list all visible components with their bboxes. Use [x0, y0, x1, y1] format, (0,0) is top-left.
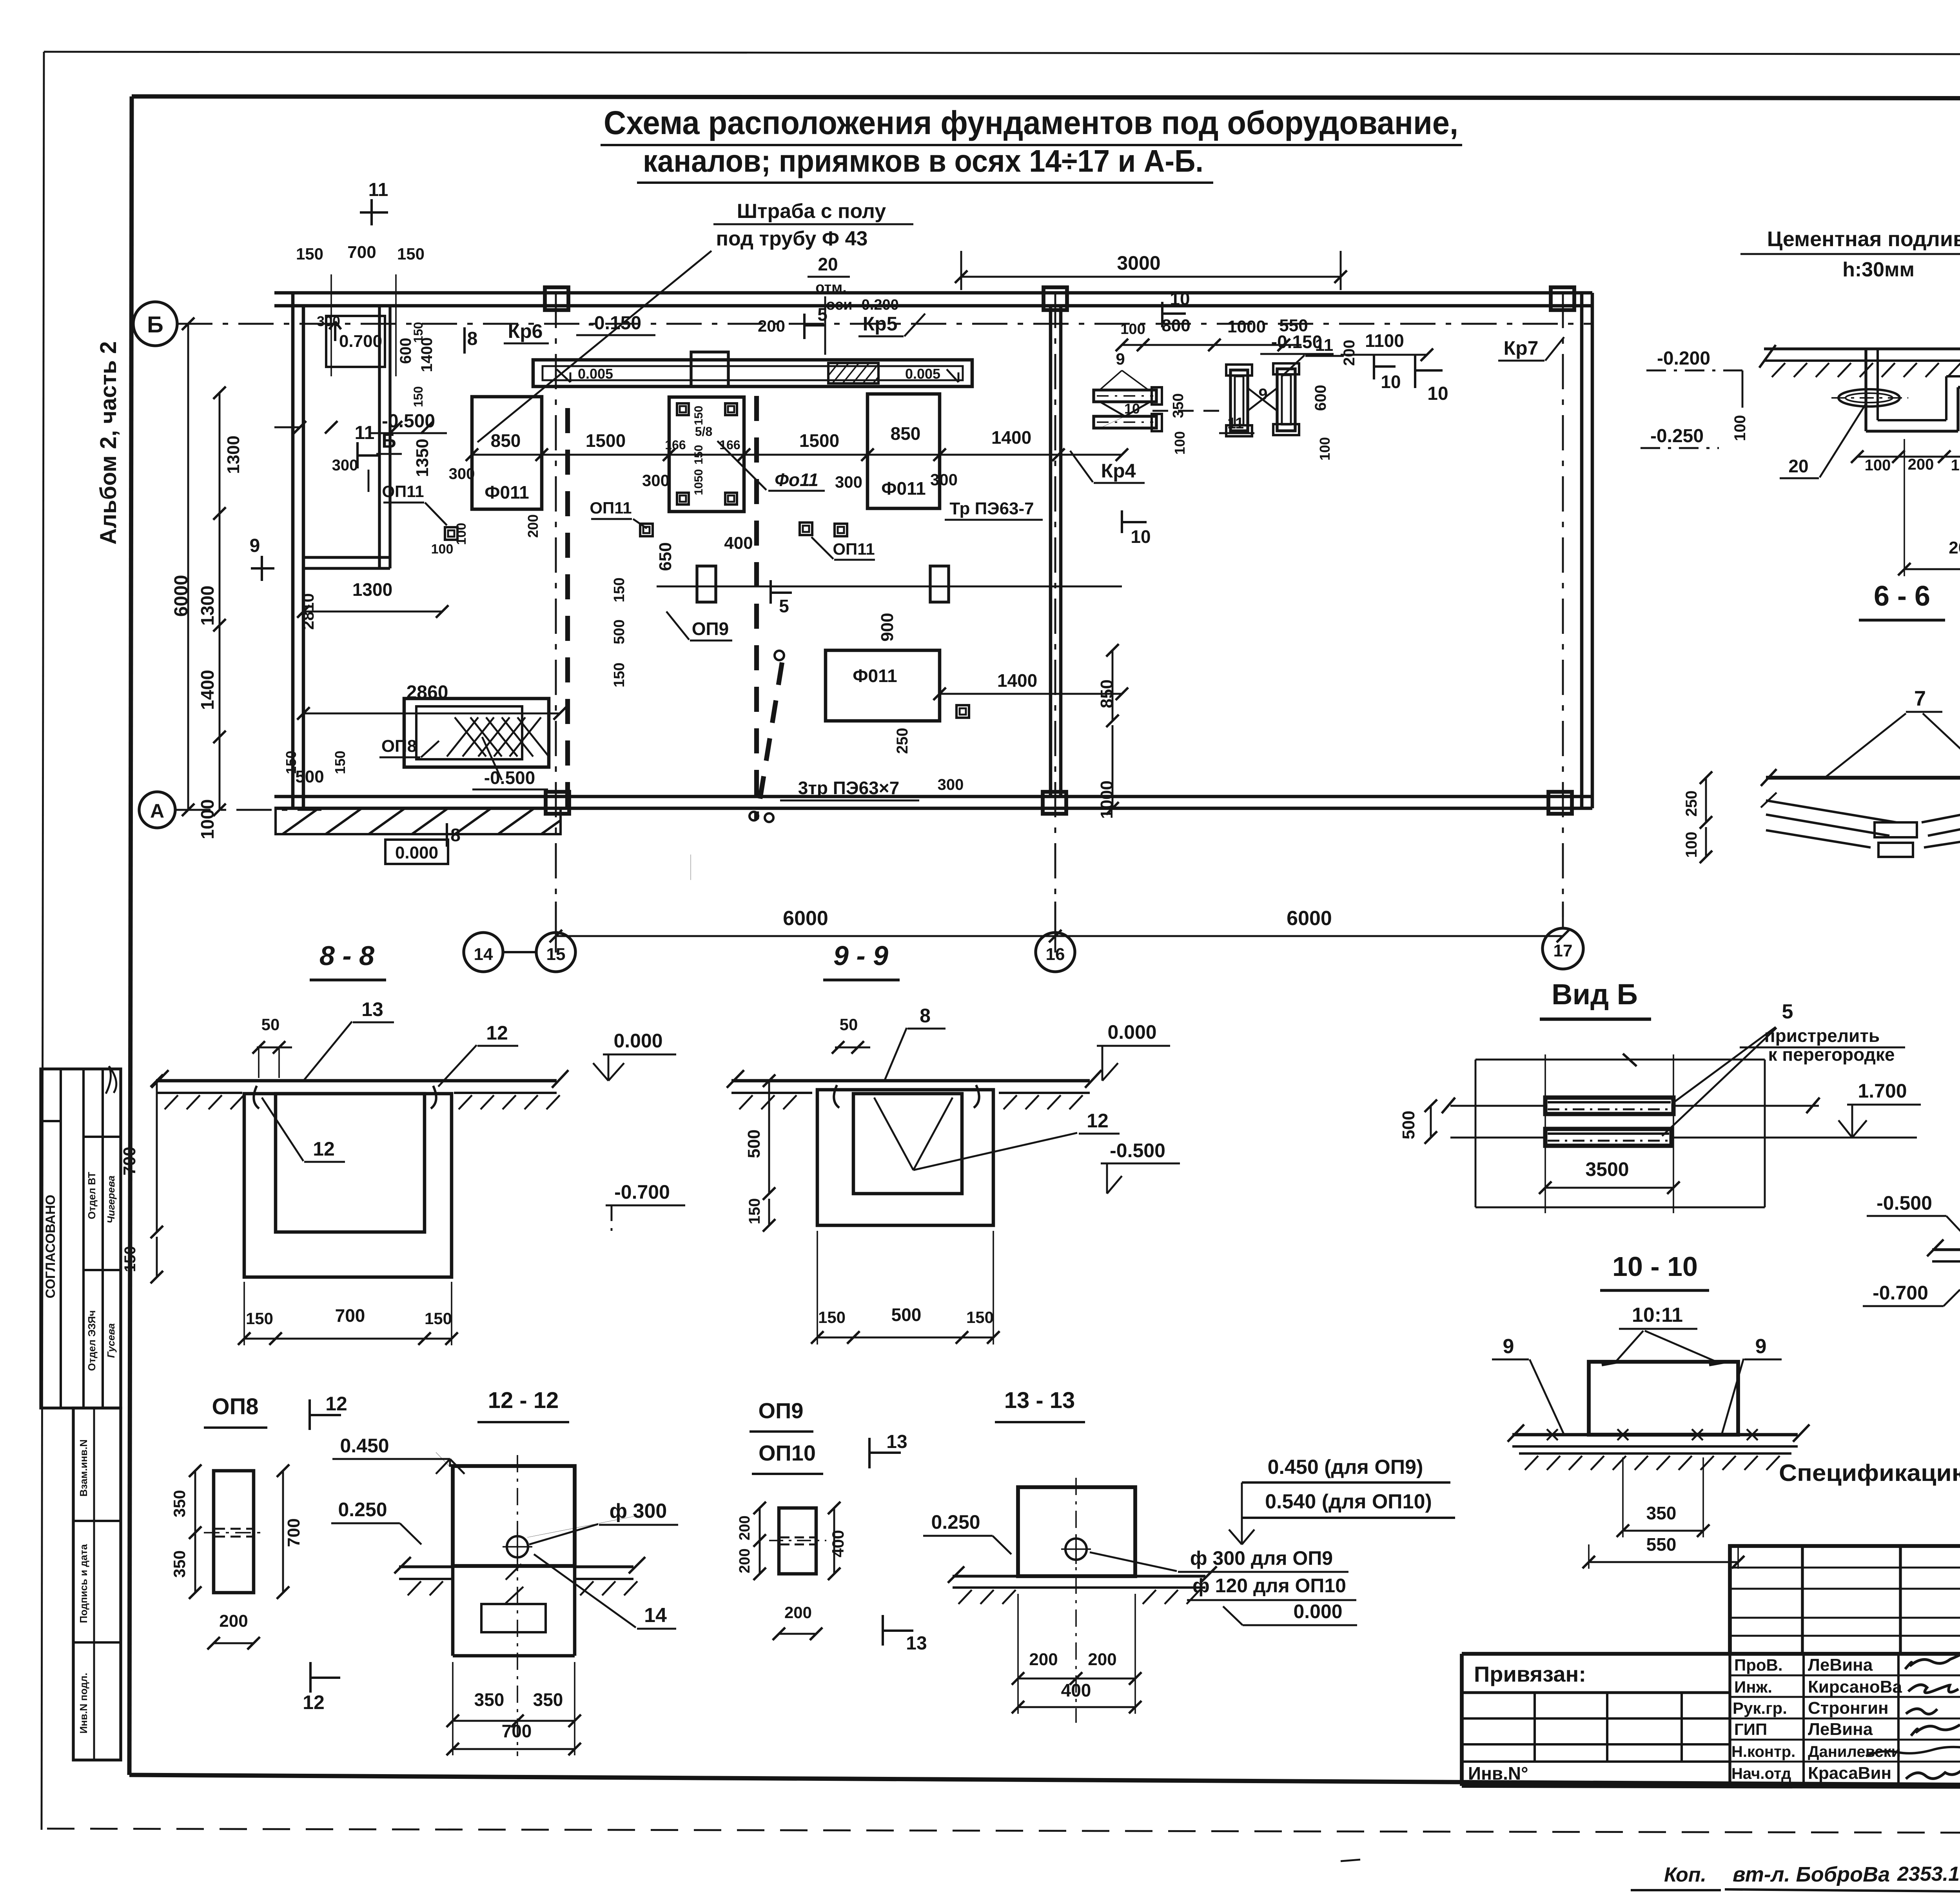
svg-text:100: 100 [1865, 457, 1891, 474]
svg-text:Рук.гр.: Рук.гр. [1733, 1699, 1787, 1717]
svg-text:200: 200 [1341, 340, 1358, 366]
left wall [291, 293, 295, 808]
vidB bar 1 [1545, 1098, 1673, 1114]
svg-text:10: 10 [1170, 289, 1190, 309]
svg-text:200: 200 [784, 1603, 812, 1622]
svg-text:200: 200 [758, 317, 785, 335]
svg-text:150: 150 [966, 1308, 994, 1326]
svg-text:6 - 6: 6 - 6 [1874, 581, 1930, 612]
8-8 top hooks [254, 1086, 259, 1109]
svg-text:1400: 1400 [997, 670, 1037, 691]
axis 15 line [555, 293, 557, 931]
svg-text:ОП9: ОП9 [759, 1398, 804, 1423]
svg-text:5/8: 5/8 [695, 425, 712, 439]
9-9 top hooks [834, 1085, 839, 1108]
signature table columns [1802, 1654, 1805, 1788]
svg-text:ЛеВина: ЛеВина [1808, 1655, 1873, 1675]
svg-text:900: 900 [878, 613, 897, 641]
svg-text:ф 300: ф 300 [610, 1500, 667, 1522]
svg-text:-0.250: -0.250 [1650, 426, 1704, 446]
floor channel top [533, 360, 972, 386]
svg-text:1.700: 1.700 [1858, 1080, 1907, 1102]
9-9 ground line [731, 1079, 1090, 1083]
svg-text:13: 13 [906, 1633, 927, 1654]
axis circle 17 [1543, 928, 1583, 969]
svg-text:Ф011: Ф011 [853, 666, 897, 686]
titleblock upper narrow table [1730, 1546, 1960, 1654]
svg-text:Цементная подливка: Цементная подливка [1767, 227, 1960, 251]
svg-text:300: 300 [449, 465, 475, 483]
svg-text:300: 300 [930, 470, 958, 489]
svg-text:1500: 1500 [799, 430, 839, 451]
svg-text:3500: 3500 [1585, 1158, 1629, 1180]
svg-text:9: 9 [1755, 1335, 1767, 1358]
svg-text:-0.700: -0.700 [614, 1181, 670, 1203]
svg-text:50: 50 [840, 1015, 858, 1034]
expansion joint dashed line 2 [754, 396, 759, 819]
svg-text:ф 300 для ОП9: ф 300 для ОП9 [1190, 1547, 1333, 1569]
axis А circle [139, 792, 175, 828]
svg-text:500: 500 [744, 1129, 764, 1158]
svg-text:200: 200 [737, 1515, 753, 1540]
OP8 mark 12 bottom [309, 1662, 312, 1693]
svg-text:200: 200 [1029, 1650, 1058, 1669]
mark 10 b [1373, 355, 1375, 379]
10-10 block [1589, 1362, 1738, 1435]
signature squiggles [1905, 1652, 1960, 1669]
svg-text:1500: 1500 [586, 430, 626, 451]
svg-text:Инж.: Инж. [1734, 1678, 1772, 1696]
svg-text:ОП11: ОП11 [590, 499, 632, 517]
svg-text:150: 150 [397, 245, 425, 263]
svg-text:Спецификацию и примечания см.: Спецификацию и примечания см. лист [1779, 1460, 1960, 1486]
svg-text:Нач.отд: Нач.отд [1731, 1765, 1791, 1782]
svg-text:9: 9 [1503, 1335, 1514, 1358]
10-10 floor [1512, 1433, 1798, 1437]
svg-text:КирсаноВа: КирсаноВа [1808, 1677, 1902, 1697]
13-13 hole [1065, 1539, 1087, 1560]
svg-text:150: 150 [246, 1309, 273, 1328]
svg-text:ОП11: ОП11 [833, 540, 875, 558]
axis А line [175, 809, 321, 811]
vidB bar 2 [1545, 1129, 1671, 1146]
axis 16 line [1054, 293, 1056, 931]
svg-text:Тр ПЭ63-7: Тр ПЭ63-7 [949, 499, 1034, 518]
svg-text:10: 10 [1131, 526, 1151, 547]
8-8 trench outer [244, 1094, 452, 1277]
svg-text:5: 5 [779, 596, 789, 616]
svg-text:650: 650 [656, 542, 675, 571]
svg-text:350: 350 [474, 1689, 505, 1710]
svg-text:150: 150 [611, 577, 628, 602]
svg-text:Кр5: Кр5 [863, 313, 898, 335]
12-12 inner pit [481, 1604, 546, 1632]
svg-text:0.700: 0.700 [339, 332, 382, 351]
svg-text:250: 250 [1683, 791, 1700, 817]
svg-text:20: 20 [818, 254, 838, 274]
8-8 trench inner [276, 1094, 425, 1232]
svg-text:550: 550 [1646, 1534, 1677, 1555]
svg-text:1350: 1350 [413, 439, 432, 477]
mark 11 top [370, 199, 373, 225]
svg-text:10: 10 [1427, 383, 1448, 404]
svg-text:каналов; приямков в осях 14÷17: каналов; приямков в осях 14÷17 и А-Б. [643, 143, 1203, 178]
svg-text:Б: Б [147, 312, 163, 338]
svg-text:150: 150 [411, 322, 425, 343]
svg-text:8: 8 [467, 328, 478, 349]
svg-text:ГИП: ГИП [1734, 1720, 1767, 1738]
svg-text:100: 100 [1120, 321, 1145, 338]
svg-text:Чигерева: Чигерева [105, 1176, 117, 1223]
svg-text:166: 166 [719, 438, 740, 452]
svg-text:1050: 1050 [692, 469, 705, 495]
left margin table СОГЛАСОВАНО [41, 1069, 121, 1408]
svg-text:6000: 6000 [1287, 907, 1332, 930]
svg-text:300: 300 [317, 313, 340, 329]
svg-text:0.250: 0.250 [338, 1499, 387, 1521]
svg-text:1300: 1300 [352, 579, 392, 600]
pit with crosshatch [404, 699, 549, 767]
svg-text:Н.контр.: Н.контр. [1731, 1743, 1795, 1760]
svg-text:-0.150: -0.150 [1271, 332, 1322, 352]
inner drawing frame [132, 96, 1960, 99]
axis16 partition wall [1049, 306, 1053, 797]
expansion joint dashed line 1 [565, 408, 570, 815]
svg-text:12: 12 [313, 1138, 335, 1160]
svg-text:10: 10 [1124, 401, 1140, 417]
svg-text:10: 10 [1381, 372, 1401, 392]
svg-text:150: 150 [283, 751, 299, 774]
svg-text:ОП8: ОП8 [381, 737, 417, 756]
svg-text:ОП8: ОП8 [212, 1394, 258, 1419]
svg-text:200: 200 [1088, 1650, 1116, 1669]
svg-text:ЛеВина: ЛеВина [1808, 1720, 1873, 1739]
svg-text:150: 150 [122, 1246, 139, 1272]
svg-text:300: 300 [835, 473, 862, 491]
svg-text:8: 8 [450, 825, 461, 845]
svg-text:100: 100 [431, 542, 454, 557]
svg-text:-0.500: -0.500 [382, 411, 435, 432]
mark 9 pit [690, 855, 691, 880]
svg-text:12: 12 [1087, 1110, 1109, 1132]
svg-text:12 - 12: 12 - 12 [488, 1388, 559, 1413]
stray marks bottom [1341, 1860, 1360, 1861]
svg-text:850: 850 [891, 423, 921, 444]
OP8 pier [214, 1471, 254, 1593]
svg-text:9: 9 [1258, 385, 1267, 403]
svg-text:400: 400 [829, 1530, 847, 1557]
svg-text:1400: 1400 [991, 427, 1031, 448]
svg-text:оси -0.200: оси -0.200 [826, 297, 899, 313]
svg-text:2353.1-86: 2353.1-86 [1897, 1863, 1960, 1885]
svg-text:0.005: 0.005 [578, 366, 613, 382]
svg-text:8: 8 [920, 1005, 931, 1027]
svg-text:200: 200 [1949, 538, 1960, 557]
dim 3000 top [961, 276, 1341, 278]
svg-text:2860: 2860 [407, 682, 448, 703]
svg-text:100: 100 [454, 523, 469, 545]
small pad OP9 left [697, 566, 716, 602]
svg-text:13 - 13: 13 - 13 [1004, 1388, 1075, 1413]
svg-text:10 - 10: 10 - 10 [1612, 1251, 1698, 1282]
svg-text:150: 150 [296, 245, 323, 263]
section mark 5 mid [769, 580, 772, 604]
svg-text:ф 120 для ОП10: ф 120 для ОП10 [1192, 1575, 1346, 1597]
svg-text:100: 100 [1172, 431, 1188, 455]
foundation F011 no4 [826, 650, 940, 721]
svg-text:20: 20 [1788, 456, 1808, 476]
svg-text:Кр4: Кр4 [1101, 460, 1136, 482]
svg-text:-0.500: -0.500 [1877, 1192, 1932, 1214]
svg-text:300: 300 [938, 776, 964, 793]
12-12 break in lower [506, 1564, 521, 1580]
13-13 floor lines [953, 1575, 1018, 1577]
svg-text:350: 350 [1646, 1503, 1677, 1523]
svg-text:Штраба с полу: Штраба с полу [737, 200, 886, 223]
svg-text:-0.200: -0.200 [1657, 348, 1710, 369]
svg-text:600: 600 [1312, 385, 1329, 411]
column axis16 bottom [1043, 792, 1066, 814]
svg-text:Кр7: Кр7 [1504, 337, 1539, 359]
svg-text:700: 700 [284, 1518, 303, 1547]
column axis17 bottom [1548, 792, 1572, 814]
svg-text:350: 350 [1170, 393, 1187, 418]
svg-text:250: 250 [894, 728, 911, 754]
svg-text:Б: Б [381, 430, 396, 452]
anchor plate with bolts [669, 397, 744, 512]
svg-text:0.540 (для ОП10): 0.540 (для ОП10) [1265, 1490, 1432, 1513]
svg-text:1300: 1300 [224, 435, 243, 474]
foundation F011 no1 [472, 397, 542, 509]
floor left 5-5 [1764, 347, 1960, 350]
svg-text:150: 150 [818, 1308, 846, 1326]
svg-text:0.000: 0.000 [1107, 1021, 1156, 1043]
svg-text:0.000: 0.000 [613, 1030, 662, 1052]
dim row 100 800 1000 550 top right [1122, 344, 1301, 346]
privyazan cell [1462, 1691, 1730, 1694]
pit crosshatch [447, 717, 478, 757]
12-12 block lower [451, 1566, 455, 1656]
svg-text:Вид Б: Вид Б [1552, 978, 1638, 1011]
svg-text:100: 100 [1731, 415, 1749, 441]
svg-text:СОГЛАСОВАНО: СОГЛАСОВАНО [43, 1195, 58, 1299]
6-6 floor line [1766, 776, 1960, 780]
svg-text:А: А [150, 800, 164, 822]
dashed pipe right [1152, 410, 1227, 412]
svg-text:12: 12 [486, 1022, 508, 1044]
svg-text:Схема расположения фундаментов: Схема расположения фундаментов под обору… [604, 104, 1458, 141]
titleblock main outline [1462, 1652, 1960, 1656]
svg-text:200: 200 [1908, 456, 1934, 473]
svg-text:10:11: 10:11 [1632, 1304, 1683, 1326]
svg-text:150: 150 [746, 1198, 763, 1225]
svg-text:13: 13 [886, 1432, 907, 1452]
OP8 mark 12 [309, 1399, 311, 1430]
svg-text:0.450: 0.450 [340, 1435, 389, 1457]
OP910 mark 13 bottom [882, 1615, 884, 1646]
svg-text:9 - 9: 9 - 9 [833, 940, 888, 971]
axis circle 15 [536, 933, 575, 972]
svg-text:850: 850 [491, 430, 521, 451]
svg-text:0.450 (для ОП9): 0.450 (для ОП9) [1268, 1456, 1423, 1479]
svg-text:Инв.N°: Инв.N° [1468, 1763, 1528, 1784]
svg-text:отм.: отм. [815, 279, 847, 296]
pipe in trench [1838, 389, 1900, 406]
interior partition vertical [378, 307, 381, 568]
foundation F011 no3 [867, 394, 940, 508]
12-12 floor lines [399, 1565, 453, 1568]
svg-text:150: 150 [692, 445, 705, 465]
svg-text:1000: 1000 [1227, 317, 1266, 336]
svg-text:ОП9: ОП9 [692, 619, 729, 639]
svg-text:Стронгин: Стронгин [1808, 1698, 1889, 1718]
boxed level 0.700 [326, 316, 385, 367]
plan center line [657, 586, 1122, 588]
svg-text:400: 400 [1061, 1680, 1091, 1700]
svg-text:850: 850 [1097, 679, 1116, 708]
svg-text:ОП10: ОП10 [759, 1441, 816, 1465]
mark 11 mid-left [356, 442, 359, 468]
svg-text:11: 11 [368, 180, 388, 200]
9-9 trench inner [853, 1094, 962, 1194]
svg-text:166: 166 [665, 438, 686, 452]
svg-text:350: 350 [170, 1490, 189, 1517]
svg-text:0.000: 0.000 [1293, 1600, 1342, 1622]
channel hatch block [828, 363, 878, 383]
svg-text:Подпись и дата: Подпись и дата [78, 1544, 89, 1623]
channel bracket pair horizontal [1094, 390, 1156, 402]
dim 1400 bottom [940, 693, 1122, 695]
13-13 dims 200 200 400 [1018, 1678, 1135, 1680]
dim row mid plan [472, 454, 1122, 456]
pit mark 8 [446, 823, 448, 847]
svg-text:ОП11: ОП11 [382, 482, 424, 501]
svg-text:3000: 3000 [1117, 252, 1160, 274]
svg-text:700: 700 [347, 243, 376, 262]
svg-text:150: 150 [332, 751, 348, 774]
svg-text:200: 200 [737, 1548, 753, 1573]
svg-text:150: 150 [411, 386, 425, 407]
13-13 center line [1075, 1478, 1077, 1723]
12-12 center line [517, 1455, 518, 1756]
svg-text:700: 700 [335, 1305, 365, 1326]
svg-text:14: 14 [474, 945, 493, 964]
anchor bolt marks OP11 [445, 527, 457, 540]
svg-text:500: 500 [611, 619, 628, 644]
12-12 dims 350 350 700 [453, 1720, 575, 1722]
svg-text:КрасаВин: КрасаВин [1808, 1764, 1891, 1783]
svg-text:-0.500: -0.500 [1110, 1140, 1165, 1161]
left grid [1462, 1717, 1730, 1720]
boxed level 0.000 [385, 840, 448, 864]
svg-text:-0.500: -0.500 [484, 768, 535, 788]
mark 8 top-left [463, 327, 466, 354]
column axis15 top [545, 287, 568, 310]
svg-text:1300: 1300 [197, 586, 218, 626]
svg-text:6000: 6000 [783, 907, 828, 930]
svg-text:Ф011: Ф011 [485, 482, 529, 503]
conduit dashed diagonal [759, 662, 782, 808]
svg-text:8 - 8: 8 - 8 [319, 940, 374, 971]
axis circle 16 [1036, 933, 1075, 972]
dim 150 700 150 top left [274, 426, 300, 428]
svg-text:вт-л. БоброВа: вт-л. БоброВа [1733, 1863, 1890, 1886]
ramp hatch band at bottom wall [276, 808, 561, 834]
svg-text:150: 150 [611, 662, 628, 687]
svg-text:150: 150 [425, 1309, 452, 1328]
svg-text:под трубу Ф 43: под трубу Ф 43 [716, 227, 868, 250]
svg-text:0.250: 0.250 [931, 1511, 980, 1533]
section mark 10 right [1121, 510, 1123, 533]
sheet outer border [44, 52, 1960, 55]
channel bracket pair vertical [1230, 370, 1248, 431]
svg-text:Инв.N подл.: Инв.N подл. [78, 1673, 89, 1733]
svg-text:400: 400 [724, 533, 753, 553]
bottom wall [274, 795, 1592, 798]
svg-text:ПроВ.: ПроВ. [1734, 1656, 1783, 1674]
channel slope arrows [557, 369, 570, 382]
12-12 hole [507, 1536, 528, 1557]
svg-text:300: 300 [332, 457, 358, 474]
left margin table Взам инв [73, 1408, 121, 1760]
svg-text:Отдел ВТ: Отдел ВТ [86, 1172, 98, 1219]
svg-text:700: 700 [120, 1147, 139, 1175]
6-6 channel profile [1766, 800, 1896, 822]
svg-text:Кр6: Кр6 [508, 320, 543, 342]
column axis17 top [1551, 287, 1574, 310]
svg-text:500: 500 [295, 767, 324, 786]
svg-text:Взам.инв.N: Взам.инв.N [78, 1439, 89, 1497]
svg-text:800: 800 [1161, 316, 1190, 335]
svg-text:200: 200 [219, 1611, 248, 1631]
axis 17 line [1562, 293, 1564, 917]
small pad right [930, 566, 949, 602]
svg-text:9: 9 [1116, 350, 1125, 368]
vidB side extension lines [1450, 1105, 1545, 1107]
column axis15 bottom [546, 792, 569, 814]
dims 100 200 100 [1857, 456, 1960, 458]
axis circle 14 [464, 933, 503, 972]
svg-text:100: 100 [1951, 457, 1960, 474]
axis Б line [177, 323, 1592, 325]
svg-text:Привязан:: Привязан: [1474, 1662, 1586, 1686]
dims 200 1350 [1904, 568, 1960, 570]
svg-text:1000: 1000 [197, 799, 218, 839]
12-12 block upper [453, 1466, 575, 1566]
OP910 mark 13 [868, 1438, 871, 1468]
span dimension 6000 6000 [556, 935, 1055, 937]
svg-text:h:30мм: h:30мм [1842, 258, 1915, 281]
svg-text:Альбом 2, часть 2: Альбом 2, часть 2 [96, 341, 121, 545]
10-10 x marks [1547, 1429, 1558, 1440]
mark 9 left [261, 556, 263, 581]
axis Б circle [133, 302, 177, 346]
8-8 ground line [156, 1079, 557, 1083]
mark 10 a [1161, 302, 1163, 327]
vidB dim 3500 [1545, 1187, 1673, 1189]
svg-text:12: 12 [303, 1691, 325, 1713]
svg-text:1400: 1400 [197, 670, 218, 710]
svg-text:300: 300 [642, 471, 670, 490]
svg-text:1100: 1100 [1365, 330, 1404, 351]
column axis16 top [1044, 287, 1067, 310]
svg-text:Ф011: Ф011 [881, 478, 926, 499]
svg-text:5: 5 [1782, 1000, 1793, 1023]
svg-text:-0.700: -0.700 [1873, 1282, 1928, 1304]
svg-text:14: 14 [644, 1604, 667, 1627]
vidB dim frame [1475, 1059, 1765, 1061]
9-9 bottom dims [817, 1337, 993, 1339]
